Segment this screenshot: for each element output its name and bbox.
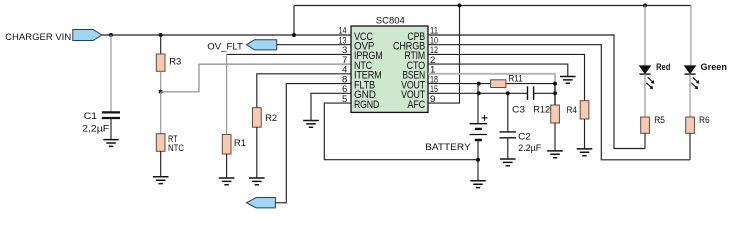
flag bottom (unlabeled) (247, 198, 276, 208)
svg-text:Green: Green (701, 62, 728, 73)
OV_FLT flag (247, 40, 277, 50)
ground below R4 (577, 149, 593, 156)
wire IPRGM pin3 to R1 (227, 53, 351, 55)
ground GND pin (303, 121, 319, 128)
ground below R1 (219, 178, 235, 185)
top rail (294, 5, 691, 7)
wire riser top rail to VCC wire (293, 6, 295, 36)
wire FLTB pin8 to flag (275, 84, 351, 203)
node dot top rail x459 (458, 4, 462, 8)
ground below R12 (547, 151, 563, 158)
wire ITERM pin4 to R2 (257, 74, 351, 108)
wire C1 stem grey (110, 35, 112, 112)
node VOUT18/battery tap (477, 82, 481, 86)
node battery/RGND (476, 158, 480, 162)
svg-text:R2: R2 (265, 113, 277, 124)
resistor R11 (491, 80, 506, 88)
ground below C2 (500, 159, 516, 166)
resistor R12 (551, 105, 560, 123)
resistor RT (160, 92, 162, 134)
node dot top rail x644.5 (643, 4, 647, 8)
VIN input flag (73, 30, 102, 41)
svg-text:C1: C1 (84, 111, 97, 122)
wire BSEN pin1 grey (428, 74, 555, 105)
svg-text:R11: R11 (508, 73, 522, 84)
ground at CTO (560, 77, 576, 84)
battery (470, 124, 488, 135)
wire VOUT pin18 (428, 83, 555, 85)
ground below C1 (103, 140, 119, 147)
capacitor C1 (102, 112, 120, 118)
node R3/RT junction (159, 90, 163, 94)
wire NTC net grey (161, 64, 351, 92)
svg-text:AFC: AFC (407, 99, 425, 111)
svg-text:RGND: RGND (354, 99, 380, 111)
VCC wire (VIN rail) (102, 34, 351, 36)
resistor R6 (686, 117, 695, 133)
ground below RT (153, 177, 169, 184)
wire RGND pin5 to battery node (324, 103, 478, 160)
wire riser top rail to AFC pin 9 (428, 6, 460, 104)
svg-text:CHARGER VIN: CHARGER VIN (5, 32, 71, 43)
svg-text:2,2µF: 2,2µF (82, 123, 109, 134)
LED D2 green (684, 66, 695, 74)
wire RTIM pin12 to R4 (428, 54, 585, 100)
svg-text:OV_FLT: OV_FLT (207, 41, 243, 52)
resistor R1 (222, 135, 231, 155)
svg-text:R5: R5 (654, 115, 665, 126)
svg-text:SC804: SC804 (376, 16, 405, 27)
svg-text:R12: R12 (533, 104, 550, 115)
svg-text:C2: C2 (518, 131, 531, 142)
node VOUT18/R12 riser (553, 82, 557, 86)
wire CPB pin11 to R5 bottom (428, 35, 645, 149)
ground below R2 (249, 178, 265, 185)
wire CHRGB pin10 to R6 bottom (428, 45, 690, 160)
capacitor C2 stem (507, 93, 509, 131)
node VOUT15/R12 riser (553, 91, 557, 95)
riser join wires18/15 to R12 (554, 84, 556, 105)
IC U1 SC804 body (351, 26, 428, 112)
capacitor C3 (528, 86, 534, 100)
resistor R4 (580, 101, 589, 119)
svg-text:R4: R4 (567, 105, 578, 116)
resistor R5 (641, 117, 650, 133)
node dot top-rail riser (292, 33, 296, 37)
svg-text:C3: C3 (512, 104, 525, 115)
wire CTO pin2 to ground (428, 64, 568, 76)
wire R3 bottom grey (160, 71, 162, 92)
node VOUT15/C2 tap (506, 91, 510, 95)
node VOUT15/battery tap (477, 91, 481, 95)
wire OVP pin13 (277, 44, 351, 46)
svg-text:R1: R1 (234, 138, 246, 149)
node dot C1 tap (109, 33, 113, 37)
LED D2 green stem (690, 6, 692, 66)
wire GND pin6 (311, 93, 351, 120)
LED D1 red stem (644, 6, 646, 66)
svg-text:2.2µF: 2.2µF (518, 143, 541, 154)
svg-text:R3: R3 (169, 57, 181, 68)
battery stem from VOUT wires (477, 84, 479, 124)
svg-text:BATTERY: BATTERY (425, 142, 471, 153)
svg-text:5: 5 (342, 94, 347, 105)
svg-text:9: 9 (430, 94, 435, 105)
svg-text:Red: Red (656, 62, 670, 73)
node dot R3 tap (159, 33, 163, 37)
svg-text:NTC: NTC (168, 143, 184, 154)
capacitor C2 (500, 132, 517, 138)
LED D1 red (639, 66, 650, 74)
resistor R3 (160, 35, 162, 54)
svg-text:R6: R6 (699, 115, 710, 126)
ground below battery (470, 181, 486, 188)
wire VOUT pin15 (428, 92, 555, 94)
resistor R2 (253, 108, 262, 128)
